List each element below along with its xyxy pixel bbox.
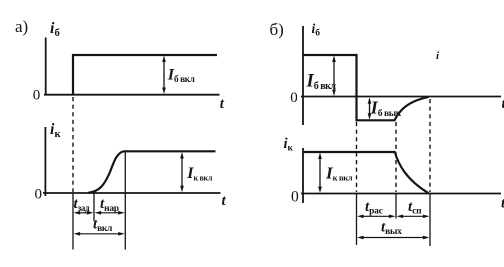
dashed line x=396 panel b (395, 122, 397, 192)
axis iк panel b: x-axis (301, 193, 501, 195)
svg-text:0: 0 (291, 189, 299, 206)
svg-text:0: 0 (290, 90, 298, 106)
axis iк panel a: y-axis (44, 127, 46, 196)
marker line below axis x=396 panel b (395, 194, 397, 219)
arrow t_нар (95, 211, 125, 215)
arrow t_вкл (74, 232, 125, 236)
marker line below axis x=430 panel b (429, 194, 431, 247)
waveform iб step panel a (73, 55, 217, 95)
arrow Iб вык panel b (368, 97, 372, 120)
marker line below axis x=356 panel b (356, 194, 358, 246)
axis iб panel a: y-axis (45, 38, 47, 95)
marker line at end of rise x=126 panel a (124, 152, 126, 250)
arrow Iк вкл panel b (318, 153, 322, 194)
arrow t_рас (357, 214, 395, 218)
dashed line x=356.5 panel b (356, 122, 358, 192)
svg-text:0: 0 (35, 187, 43, 203)
axis iб panel b: y-axis (302, 26, 304, 125)
waveform iб panel b (303, 55, 429, 120)
waveform iк s-curve panel a (88, 151, 216, 193)
svg-text:а): а) (15, 17, 28, 36)
svg-text:0: 0 (33, 88, 41, 104)
waveform iк panel b (303, 152, 429, 193)
axis iк panel b: y-axis (302, 148, 304, 203)
dashed line at t0 panel a (72, 97, 74, 192)
dashed line x=430 panel b (429, 99, 431, 192)
axis iб panel a: x-axis (44, 94, 220, 96)
marker line solid below axis x=73 panel a (72, 193, 74, 250)
arrow Iк вкл panel a (180, 152, 184, 192)
arrow Iб вкл panel a (162, 56, 166, 95)
axis iк panel a: x-axis (43, 192, 221, 194)
arrow t_сп (397, 214, 430, 218)
arrow Iб вкл panel b (332, 56, 336, 97)
svg-text:б): б) (270, 20, 284, 39)
axis iб panel b: x-axis (301, 96, 501, 98)
arrow t_вых (357, 236, 429, 240)
arrow t_зад (74, 211, 94, 215)
marker tick x=94 panel a (93, 193, 95, 221)
